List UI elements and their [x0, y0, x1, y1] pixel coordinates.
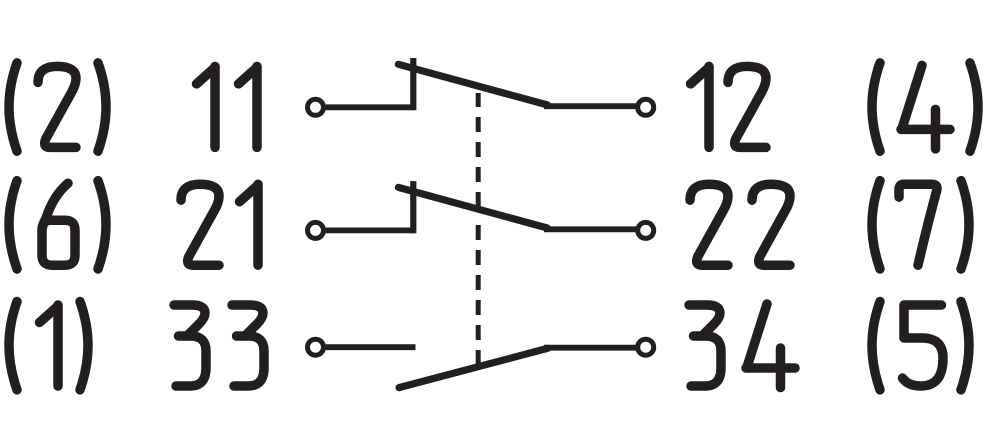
contact 21-22 (NC): left terminal circle	[308, 222, 324, 238]
label (5)	[872, 302, 969, 390]
contact 33-34 (NO): left wire (open)	[326, 344, 416, 350]
contact 11-12 (NC): fixed contact bar	[410, 58, 416, 110]
contact 21-22 (NC): right terminal circle	[638, 222, 654, 238]
contact 33-34 (NO): right terminal circle	[638, 339, 654, 355]
contact 11-12 (NC): left wire	[326, 104, 416, 110]
label 11	[197, 66, 258, 147]
contact 11-12 (NC): left terminal circle	[308, 99, 324, 115]
label (1)	[9, 302, 88, 390]
contact 21-22 (NC): fixed contact bar	[410, 181, 416, 233]
mechanical link dashed line	[476, 93, 481, 365]
label (7)	[872, 181, 969, 269]
label 34	[689, 304, 795, 388]
contact 33-34 (NO): right wire	[544, 345, 637, 351]
contact 21-22 (NC): movable contact arm	[398, 187, 547, 228]
contact 11-12 (NC): movable contact arm	[398, 64, 547, 105]
contact 21-22 (NC): left wire	[326, 227, 416, 233]
contact 21-22 (NC): right wire	[544, 226, 637, 232]
label 22	[690, 184, 790, 265]
label (2)	[9, 63, 106, 151]
contact 11-12 (NC): right wire	[544, 103, 637, 109]
label (6)	[9, 181, 106, 269]
label 33	[174, 305, 264, 386]
contact 11-12 (NC): right terminal circle	[638, 99, 654, 115]
contact 33-34 (NO): left terminal circle	[308, 339, 324, 355]
label 12	[691, 66, 767, 147]
contact 33-34 (NO): movable contact arm	[399, 348, 547, 387]
label (4)	[872, 63, 978, 151]
label 21	[181, 184, 258, 265]
